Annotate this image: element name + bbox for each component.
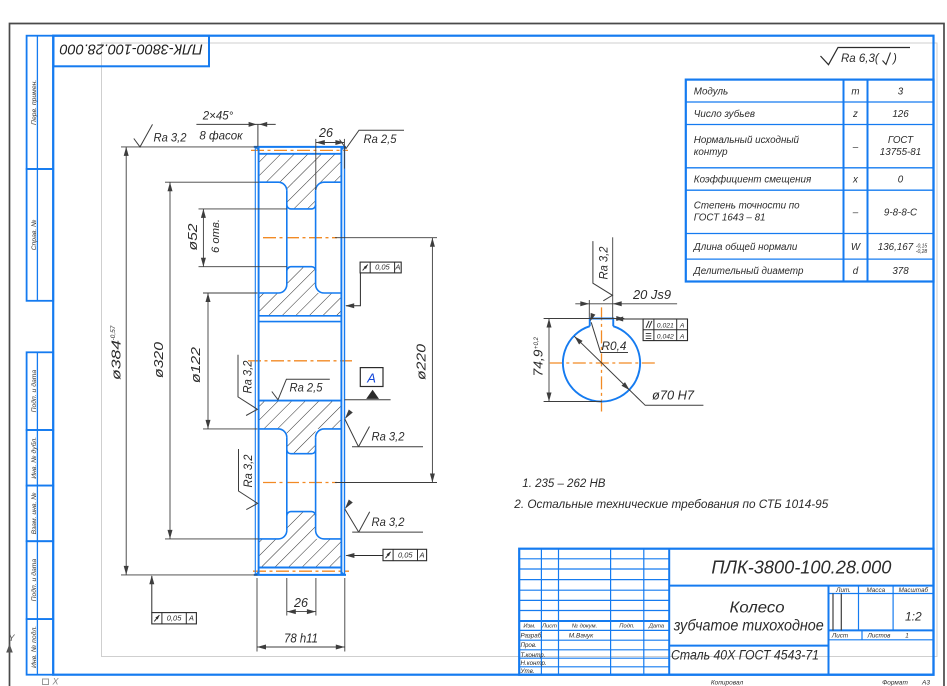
top-left stamp box (графа 26) <box>54 36 210 67</box>
svg-text:Длина общей нормали: Длина общей нормали <box>693 242 798 253</box>
svg-text:126: 126 <box>892 109 909 120</box>
svg-text:Дата: Дата <box>648 624 665 630</box>
leader of ø384 tolerance frame <box>151 576 153 613</box>
detail view: orange centerline horizontal <box>550 362 657 364</box>
svg-text:9-8-8-С: 9-8-8-С <box>884 207 918 218</box>
svg-text:Листов: Листов <box>867 632 892 639</box>
svg-text:0,042: 0,042 <box>657 333 674 340</box>
dim ø122 extension bottom <box>203 428 258 430</box>
tooth root line bottom <box>259 567 342 569</box>
svg-text:Взам. инв. №: Взам. инв. № <box>31 492 38 534</box>
svg-text:Ra 3,2: Ra 3,2 <box>599 246 611 280</box>
web left face (top half) <box>286 191 288 285</box>
bottom hole centerline <box>263 482 337 484</box>
svg-text:А: А <box>679 333 685 340</box>
svg-text:№ докум.: № докум. <box>572 624 598 630</box>
dim ø320 dimension line <box>169 182 171 539</box>
hub outer surface bottom-right + fillet <box>316 429 342 438</box>
title block main vertical splits <box>668 549 670 675</box>
svg-text:Инв. № подл.: Инв. № подл. <box>30 626 38 668</box>
svg-text:Ra 3,2: Ra 3,2 <box>243 360 255 394</box>
tolerance frame radial runout on ø384 <box>152 613 197 624</box>
svg-text:Ra 6,3(: Ra 6,3( <box>841 53 880 65</box>
hatch: bottom web band <box>287 512 316 539</box>
dim 26 top extension lines <box>315 139 317 190</box>
svg-text:-0,28: -0,28 <box>916 249 928 255</box>
svg-text:ø70 H7: ø70 H7 <box>652 389 695 403</box>
margin graph box: Подп. и дата <box>27 541 54 619</box>
svg-text:ПЛК-3800-100.28.000: ПЛК-3800-100.28.000 <box>59 41 203 58</box>
svg-text:зубчатое тихоходное: зубчатое тихоходное <box>673 618 824 635</box>
rim inner surface top-right + fillet <box>316 182 342 191</box>
svg-text:6 отв.: 6 отв. <box>210 219 222 253</box>
svg-text:Подп.: Подп. <box>619 624 634 630</box>
svg-text:74,9: 74,9 <box>532 349 546 376</box>
leader of upper tolerance frame <box>346 273 360 306</box>
margin graph box: Подп. и дата <box>27 352 54 430</box>
svg-text:Подп. и дата: Подп. и дата <box>30 370 38 413</box>
svg-text:ø122: ø122 <box>188 346 203 383</box>
svg-text:Утв.: Утв. <box>520 668 535 675</box>
dim ø122 dimension line <box>207 293 209 429</box>
tolerance frame face runout upper <box>360 262 401 273</box>
pitch line bottom <box>253 570 349 572</box>
svg-text:Ra 3,2: Ra 3,2 <box>372 432 406 444</box>
hatch: bottom rim band <box>259 539 342 568</box>
hatch: top web band between rim and hole <box>287 182 316 209</box>
web right face (bottom half) <box>315 437 317 530</box>
svg-text:Формат: Формат <box>882 679 908 686</box>
svg-text:контур: контур <box>694 147 728 158</box>
roughness Ra 2,5 at bore <box>272 379 330 400</box>
svg-text:ГОСТ: ГОСТ <box>888 135 914 146</box>
rim inner surface bottom-left + fillet <box>259 530 287 539</box>
hub outer surface top-right + fillet <box>316 285 342 294</box>
material cell top <box>669 645 828 647</box>
svg-text:1. 235 – 262 НВ: 1. 235 – 262 НВ <box>522 478 605 490</box>
web left face (bottom half) <box>286 437 288 530</box>
лит cell black dividers <box>832 594 834 631</box>
svg-text:Ra 3,2: Ra 3,2 <box>372 517 406 529</box>
roughness Ra 3,2 at chamfer <box>134 124 153 146</box>
svg-text:Число зубьев: Число зубьев <box>694 109 755 120</box>
svg-text:13755-81: 13755-81 <box>880 147 921 158</box>
svg-text:А: А <box>394 263 400 272</box>
svg-text:ø220: ø220 <box>414 343 429 380</box>
svg-text:z: z <box>852 109 858 120</box>
svg-text:ø320: ø320 <box>151 341 166 378</box>
keyway parallel/symmetry tolerance frames <box>643 319 687 341</box>
svg-text:Перв. примен.: Перв. примен. <box>31 80 38 125</box>
svg-text:0,05: 0,05 <box>398 551 413 560</box>
svg-text:ГОСТ 1643 – 81: ГОСТ 1643 – 81 <box>694 213 766 224</box>
svg-text:Ra 3,2: Ra 3,2 <box>243 454 255 488</box>
dim 26 bottom extension lines <box>286 578 288 616</box>
svg-text:Модуль: Модуль <box>694 86 728 97</box>
detail view: orange centerline vertical <box>601 307 603 411</box>
svg-text:Пров.: Пров. <box>521 642 537 649</box>
gear parameter table <box>686 80 934 282</box>
bore bottom line <box>259 400 342 402</box>
svg-text:136,167: 136,167 <box>878 242 914 253</box>
detail view: bore circle with keyway slot <box>563 326 640 401</box>
datum A triangle <box>366 390 379 399</box>
svg-text:Коэффициент смещения: Коэффициент смещения <box>694 175 812 186</box>
gear section hatch: top rim band <box>259 154 342 182</box>
svg-text:378: 378 <box>892 266 909 277</box>
svg-text:Ra 3,2: Ra 3,2 <box>154 133 188 145</box>
svg-text:m: m <box>851 86 859 97</box>
margin graph box: Перв. примен. <box>27 36 54 169</box>
keyway slot lower line / bore top <box>259 321 342 323</box>
tolerance frame face runout lower <box>383 549 427 560</box>
top lightening hole upper edge <box>287 205 316 209</box>
svg-text:Степень точности по: Степень точности по <box>694 201 800 212</box>
left part horizontal rows (upper) <box>519 558 669 560</box>
svg-text:Лист: Лист <box>541 624 557 630</box>
svg-text:А: А <box>188 614 194 623</box>
svg-text:2. Остальные технические требо: 2. Остальные технические требования по С… <box>513 499 829 511</box>
leader of keyway tolerance frames <box>616 318 643 320</box>
dim ø220 dimension line <box>431 238 433 483</box>
svg-text:Подп. и дата: Подп. и дата <box>30 559 38 602</box>
svg-text:78 h11: 78 h11 <box>284 631 318 645</box>
roughness Ra 3,2 rotated at keyway <box>593 241 613 301</box>
bottom lightening hole upper edge <box>287 450 316 454</box>
chamfer edge bottom-right <box>341 571 345 575</box>
dim ø384 dimension line <box>125 147 127 575</box>
hub outer surface top-left + fillet <box>259 285 287 294</box>
roughness Ra 3,2 right upper with leader <box>345 410 353 420</box>
svg-text:26: 26 <box>293 596 308 610</box>
svg-text:0,021: 0,021 <box>657 323 674 330</box>
svg-text:А: А <box>366 370 376 385</box>
dim 78 h11 dimension line <box>257 646 345 648</box>
left part verticals <box>540 549 542 675</box>
view boundary (faint) <box>102 43 938 657</box>
ø70 H7 leader <box>574 336 703 405</box>
web right face (top half) <box>315 191 317 285</box>
margin graph box: Инв. № дубл. <box>27 430 54 486</box>
dim ø384 extension line bottom <box>121 574 258 576</box>
svg-text:ПЛК-3800-100.28.000: ПЛК-3800-100.28.000 <box>711 557 892 578</box>
chamfer edge top-left <box>256 147 260 151</box>
svg-text:Делительный диаметр: Делительный диаметр <box>693 266 804 277</box>
hub outer surface bottom-left + fillet <box>259 429 287 438</box>
margin graph box: Справ. № <box>27 169 54 301</box>
roughness Ra 3,2 rotated lower (face) <box>239 449 258 510</box>
dim ø52 extension bottom <box>199 266 287 268</box>
gear outline: left face thin line <box>254 147 256 575</box>
gear outline: right face thin line <box>344 147 346 575</box>
svg-text:d: d <box>853 266 859 277</box>
svg-text:8 фасок: 8 фасок <box>199 131 243 143</box>
tooth tip line bottom <box>254 574 346 576</box>
roughness Ra 3,2 right lower with leader <box>345 500 353 510</box>
svg-text:R0,4: R0,4 <box>602 341 627 353</box>
dim ø320 extension bottom <box>165 538 259 540</box>
svg-text:-0,57: -0,57 <box>110 325 117 340</box>
svg-text:1: 1 <box>905 632 909 639</box>
bottom lightening hole lower edge <box>287 512 316 516</box>
tooth tip line top <box>254 146 346 148</box>
svg-text:А: А <box>679 323 685 330</box>
top lightening hole lower edge <box>287 267 316 271</box>
designation cell bottom <box>669 585 933 587</box>
svg-text:Ra 2,5: Ra 2,5 <box>364 134 398 146</box>
keyway slot upper line <box>259 315 342 317</box>
svg-text:Н.контр.: Н.контр. <box>521 660 547 667</box>
svg-text:2×45°: 2×45° <box>202 111 234 123</box>
svg-text:–: – <box>852 142 859 153</box>
left part horizontal rows (lower) <box>519 629 669 631</box>
rim inner surface bottom-right + fillet <box>316 530 342 539</box>
gear outline: left face contour <box>258 147 260 575</box>
svg-text:–: – <box>852 207 859 218</box>
dim ø220 extension bottom <box>335 482 437 484</box>
svg-text:М.Вачук: М.Вачук <box>569 633 594 640</box>
dim ø52 dimension line <box>202 209 204 267</box>
dim 78 h11 extension lines <box>256 578 258 652</box>
dim 26 bottom dimension line <box>287 611 316 613</box>
datum A: bore surface extension <box>345 399 391 401</box>
dim ø320 extension top <box>165 181 259 183</box>
svg-text:0,05: 0,05 <box>167 614 182 623</box>
dim 74,9 extension bottom <box>544 401 602 403</box>
svg-text:Колесо: Колесо <box>730 600 785 617</box>
svg-text:А: А <box>419 551 425 560</box>
rim inner surface top-left + fillet <box>259 182 287 191</box>
top hole centerline <box>263 237 337 239</box>
roughness Ra 3,2 rotated upper (face) <box>238 355 257 416</box>
dim 20 Js9 dimension line <box>575 303 677 305</box>
svg-text:ø52: ø52 <box>185 223 200 251</box>
svg-text:Сталь 40Х ГОСТ 4543-71: Сталь 40Х ГОСТ 4543-71 <box>671 648 819 663</box>
svg-text:Разраб.: Разраб. <box>521 633 543 640</box>
svg-text:Справ. №: Справ. № <box>31 219 38 250</box>
tooth root line top <box>259 153 342 155</box>
svg-text:20 Js9: 20 Js9 <box>632 288 671 302</box>
svg-text:А3: А3 <box>921 679 930 686</box>
svg-text:X: X <box>51 677 59 686</box>
svg-text:1:2: 1:2 <box>905 610 922 624</box>
title block outer <box>519 549 933 675</box>
svg-text:Y: Y <box>8 633 15 643</box>
hatch: top hub T-region <box>259 267 342 316</box>
dim ø384 extension line top <box>121 146 258 148</box>
svg-text:Инв. № дубл.: Инв. № дубл. <box>30 437 38 479</box>
hatch: bottom hub T-region <box>259 401 342 454</box>
chamfer edge top-right <box>341 147 345 151</box>
svg-text:+0,2: +0,2 <box>534 336 540 349</box>
chamfer leader 2x45 <box>257 124 259 146</box>
svg-text:0: 0 <box>898 175 904 186</box>
dim ø122 extension top <box>203 292 258 294</box>
chamfer edge bottom-left <box>256 571 260 575</box>
dim 20 Js9 extension lines <box>588 300 590 318</box>
svg-text:Изм.: Изм. <box>523 624 535 630</box>
svg-text:0,05: 0,05 <box>375 263 390 272</box>
margin graph box: Инв. № подл. <box>27 619 54 675</box>
dim 26 top dimension line <box>316 142 345 144</box>
svg-text:Т.контр.: Т.контр. <box>521 652 546 659</box>
general roughness Ra 6,3 <box>821 48 911 65</box>
svg-text:Копировал: Копировал <box>711 679 744 686</box>
dim ø52 extension top <box>199 208 287 210</box>
pitch line top <box>251 149 348 151</box>
svg-text:Нормальный исходный: Нормальный исходный <box>694 135 800 146</box>
header row line <box>519 620 669 622</box>
svg-text:26: 26 <box>318 126 333 140</box>
roughness Ra 2,5 top <box>340 130 405 148</box>
svg-text:3: 3 <box>898 86 904 97</box>
svg-text:Ra 2,5: Ra 2,5 <box>290 383 324 395</box>
dim 74,9 dimension line <box>548 319 550 402</box>
svg-text:Масштаб: Масштаб <box>899 586 929 594</box>
svg-text:ø384: ø384 <box>109 340 124 380</box>
leader of lower tolerance frame <box>346 555 383 557</box>
right block: лит/масса/масштаб <box>829 593 934 595</box>
R0,4 fillet callout <box>591 322 628 352</box>
datum A frame <box>360 368 383 387</box>
dim 74,9 extension top (keyway surface) <box>544 318 625 320</box>
svg-text:Лит.: Лит. <box>835 587 851 594</box>
dim ø220 extension top <box>335 237 437 239</box>
margin graph box: Взам. инв. № <box>27 486 54 542</box>
gear axis centerline <box>248 360 352 362</box>
svg-text:Лист: Лист <box>831 632 848 639</box>
gear outline: right face contour <box>340 147 342 575</box>
svg-text:Масса: Масса <box>866 587 885 594</box>
